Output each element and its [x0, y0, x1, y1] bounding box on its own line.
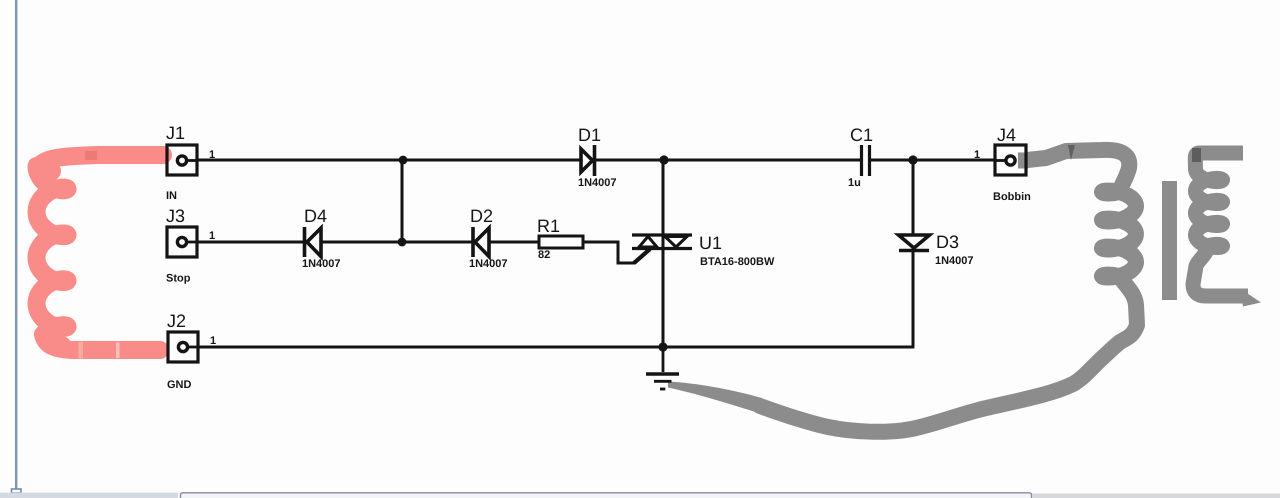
- svg-text:GND: GND: [167, 379, 192, 391]
- wire D4 to D2: [321, 241, 473, 244]
- svg-text:J1: J1: [166, 123, 185, 143]
- triac main vertical wire: [662, 160, 665, 347]
- left window border blue line: [15, 0, 17, 489]
- svg-text:D1: D1: [578, 125, 601, 145]
- gray marker: J4 to primary winding and swoosh to ground: [760, 150, 1137, 432]
- connector J4: [995, 145, 1026, 175]
- svg-text:1: 1: [974, 149, 980, 161]
- red marker lighter lift strips on bottom run: [79, 342, 84, 359]
- svg-text:D3: D3: [936, 232, 959, 252]
- bottom wire J2 to D3: [198, 346, 914, 349]
- transformer core bar: [1162, 181, 1177, 300]
- diode D2: [473, 227, 489, 257]
- svg-text:C1: C1: [850, 125, 873, 145]
- wire D2 to R1: [489, 241, 539, 244]
- svg-text:J4: J4: [997, 125, 1016, 145]
- gate diagonal into triac: [634, 249, 650, 263]
- red marker coil (hand drawn primary loop on left): [37, 155, 164, 350]
- junction dot mid bus / link: [398, 238, 407, 247]
- svg-text:1: 1: [209, 149, 215, 161]
- diode D3 (vertical): [899, 235, 930, 251]
- ground symbol: [646, 347, 679, 389]
- svg-text:Bobbin: Bobbin: [993, 191, 1031, 203]
- capacitor C1: [862, 145, 870, 176]
- red marker arrow end at J2: [150, 341, 169, 357]
- junction dot top bus / triac: [659, 155, 668, 164]
- svg-text:1N4007: 1N4007: [935, 255, 974, 267]
- bottom left taskbar strip: [0, 493, 178, 498]
- vertical wire linking top and mid buses: [401, 160, 404, 242]
- red marker darker start notch: [85, 151, 97, 160]
- gray marker dark patch near J4 bend: [1068, 145, 1075, 160]
- svg-text:D4: D4: [304, 206, 327, 226]
- svg-text:J3: J3: [166, 206, 185, 226]
- svg-text:IN: IN: [166, 190, 177, 202]
- diode D1: [581, 145, 595, 176]
- svg-text:R1: R1: [537, 216, 560, 236]
- wire C1 to J4: [870, 159, 995, 162]
- wire J1 to D1: [198, 159, 581, 162]
- svg-text:1u: 1u: [848, 177, 861, 189]
- svg-text:1: 1: [210, 335, 216, 347]
- gray marker taper toward ground symbol: [668, 382, 762, 415]
- D3 branch vertical wire: [912, 160, 915, 347]
- bottom middle window edge: [181, 493, 1032, 498]
- junction dot bottom wire / triac: [658, 342, 667, 351]
- diode D4: [305, 227, 322, 257]
- gray marker arrow tip bottom right: [1240, 289, 1261, 307]
- svg-text:J2: J2: [167, 311, 186, 331]
- svg-text:1: 1: [209, 230, 215, 242]
- svg-text:1N4007: 1N4007: [469, 258, 508, 270]
- wire R1 to gate jog: [583, 242, 635, 263]
- connector J3: [167, 227, 197, 257]
- junction dot top bus / D3: [908, 155, 917, 164]
- gray marker: secondary winding with top bar and bottom lead: [1193, 153, 1248, 296]
- svg-text:BTA16-800BW: BTA16-800BW: [700, 256, 775, 268]
- gray marker start overlapping J4 box: [1018, 153, 1028, 169]
- junction dot top bus / link: [399, 156, 408, 165]
- schematic black ink: [198, 160, 995, 347]
- blue line foot widget: [12, 489, 22, 493]
- gray marker dark patch near secondary top: [1192, 148, 1201, 162]
- red marker fat bottom-left corner blob: [47, 336, 71, 353]
- svg-text:U1: U1: [699, 233, 722, 253]
- connector J2: [168, 332, 198, 362]
- red marker fat top-left corner blob: [35, 160, 61, 182]
- resistor R1: [539, 236, 583, 248]
- svg-text:82: 82: [538, 249, 550, 261]
- wire D1 to C1: [594, 159, 861, 162]
- connector J1: [167, 145, 197, 175]
- triac U1: [632, 235, 692, 249]
- svg-text:Stop: Stop: [166, 273, 191, 285]
- svg-text:1N4007: 1N4007: [302, 258, 341, 270]
- wire J3 to D4: [198, 241, 305, 244]
- svg-text:1N4007: 1N4007: [578, 177, 617, 189]
- svg-text:D2: D2: [470, 206, 493, 226]
- bottom right gray strip: [1032, 494, 1280, 498]
